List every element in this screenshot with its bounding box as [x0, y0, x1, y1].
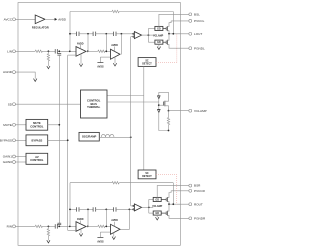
- node amp2 input: [105, 50, 107, 52]
- wire LOUT: [169, 33, 189, 35]
- pin BSR terminal: [189, 184, 192, 187]
- svg-text:PVCCL: PVCCL: [194, 19, 205, 23]
- pin RIN terminal: [13, 225, 16, 228]
- resistor R-FB right channel: [112, 182, 119, 184]
- svg-text:CONTROL: CONTROL: [30, 124, 44, 128]
- wire amp2 output: [120, 53, 121, 55]
- pin LOUT terminal: [189, 32, 192, 35]
- svg-text:CONTROL: CONTROL: [30, 158, 44, 162]
- gate drive GD1 top: [155, 26, 163, 30]
- svg-text:LOUT: LOUT: [194, 32, 202, 36]
- zener D1: [158, 95, 161, 97]
- ground LIN divider: [47, 66, 50, 69]
- wire vclamp left leg: [158, 92, 160, 96]
- wire bypass vertical B: [67, 55, 69, 230]
- gate drive GD2 bottom: [155, 40, 163, 44]
- wire AVDD stub amp2: [114, 47, 116, 52]
- wire amp1 out: [86, 50, 98, 52]
- svg-text:AVCC: AVCC: [4, 17, 13, 21]
- wire MUTE out: [48, 124, 60, 126]
- node C2 cap line: [105, 209, 107, 211]
- pin GAIN0 terminal: [13, 161, 16, 164]
- box SC DETECT left: [138, 58, 156, 67]
- svg-text:BYPASS: BYPASS: [31, 138, 42, 142]
- node RIN divider junction: [48, 226, 50, 228]
- node VCLAMP out: [168, 110, 170, 112]
- wire feedback resistor line top: [70, 11, 112, 13]
- op-amp A3 right input amp: [76, 222, 86, 232]
- node amp1R output: [87, 226, 89, 228]
- wire BSR bootstrap: [157, 186, 189, 198]
- svg-text:AVDD: AVDD: [77, 42, 84, 45]
- ground RIN divider: [47, 240, 50, 243]
- wire AVDD stub amp1: [79, 45, 81, 49]
- wire SC detect sense left (pink dotted): [156, 34, 177, 63]
- wire feedback cap line right-channel: [70, 208, 76, 210]
- wire comparator right output: [142, 206, 154, 208]
- wire AVDD stub amp1R: [79, 221, 81, 224]
- comparator PWM left: [133, 33, 134, 34]
- ramp waveform arcs: [101, 134, 114, 137]
- node LOUT fet junction: [168, 33, 170, 35]
- svg-text:GAIN0: GAIN0: [3, 160, 13, 164]
- box MUTE CONTROL: [26, 119, 48, 130]
- wire AVCC to regulator: [15, 18, 35, 20]
- pin ROUT terminal: [189, 203, 192, 206]
- node ramp split: [130, 136, 132, 138]
- op-amp A2 integrator: [111, 49, 121, 59]
- node vclamp gate: [158, 104, 160, 106]
- capacitor C-FB3: [112, 32, 114, 36]
- wire amp2 lower input: [100, 56, 110, 58]
- svg-text:PGNDR: PGNDR: [194, 216, 206, 220]
- wire ROUT: [169, 203, 189, 205]
- node mute tap right: [58, 226, 60, 228]
- box BYPASS: [26, 135, 48, 146]
- ground bar AVSS amp2R reference: [97, 236, 103, 238]
- wire amp2R lower input: [100, 231, 110, 233]
- pin BYPASS terminal: [13, 139, 16, 142]
- wire to gate drives: [147, 29, 149, 43]
- node mute tap: [58, 50, 60, 52]
- transistor Q1 high side: [163, 28, 166, 30]
- svg-text:AVDD: AVDD: [111, 219, 118, 222]
- node LOUT feedback junction: [172, 33, 174, 35]
- pin AGND terminal: [13, 71, 16, 74]
- wire riser amp1 output to cap line: [87, 34, 89, 52]
- wire regulator output: [45, 18, 55, 20]
- wire MUTE in: [15, 124, 26, 126]
- ground gate drive right channel: [156, 215, 158, 217]
- ground AGND: [34, 79, 37, 82]
- box SC DETECT right: [138, 170, 156, 179]
- pin BSL terminal: [189, 13, 192, 16]
- svg-text:AVDD: AVDD: [77, 218, 84, 221]
- wire BYPASS in: [15, 139, 26, 141]
- gate drive GD3 top right: [153, 197, 161, 201]
- pin PVCCR terminal: [171, 190, 189, 192]
- wire comparator output: [142, 34, 155, 36]
- resistor R-LIN series: [35, 50, 42, 52]
- node A2 cap line: [69, 209, 71, 211]
- resistor R-LIN to ground: [47, 51, 49, 53]
- wire ramp to comparators: [130, 37, 132, 138]
- wire riser amp2 output to node D: [120, 34, 122, 54]
- pin GAIN1 terminal: [13, 155, 16, 158]
- capacitor mute coupling: [57, 53, 61, 55]
- node B2 cap line: [87, 209, 89, 211]
- pin PGNDL terminal: [189, 47, 192, 50]
- op-amp A1 left input amp: [76, 47, 86, 57]
- node amp1 input: [69, 50, 71, 52]
- wire feedback drop to LOUT: [172, 12, 174, 34]
- node ROUT fet junction: [168, 203, 170, 205]
- node MUTE junction: [58, 124, 60, 126]
- svg-text:SD: SD: [8, 102, 13, 106]
- box CONTROL BIAS THERMAL: [81, 90, 108, 118]
- ground amp2R: [113, 232, 115, 236]
- pin SD terminal: [13, 103, 16, 106]
- svg-text:GD: GD: [157, 27, 161, 30]
- wire feedback riser left: [69, 12, 71, 52]
- capacitor C-FB1R: [75, 207, 77, 211]
- wire SC detect vertical: [143, 66, 145, 170]
- wire ramp to comparator upper input: [131, 205, 133, 207]
- box AV CONTROL: [26, 153, 48, 164]
- node amp2R input: [105, 226, 107, 228]
- resistor R-RIN series: [35, 225, 42, 227]
- pin VCLAMP terminal: [169, 110, 190, 112]
- comparator PWM right: [133, 205, 134, 206]
- wire AVDD stub amp2R: [114, 222, 116, 227]
- node BYPASS junction: [67, 139, 69, 141]
- wire riser amp2R input: [105, 209, 107, 226]
- wire RIN to amp: [57, 225, 76, 227]
- wire feedback drop to ROUT: [172, 183, 174, 205]
- wire AGND: [15, 72, 35, 79]
- capacitor C-FB2R: [92, 207, 94, 211]
- pin MUTE terminal: [13, 123, 16, 126]
- wire feedback resistor line right-channel: [70, 182, 112, 184]
- svg-text:REGULATOR: REGULATOR: [32, 26, 49, 30]
- wire control to SC net: [107, 95, 144, 97]
- node amp1 output: [87, 50, 89, 52]
- svg-text:AVSS: AVSS: [97, 66, 104, 69]
- wire LIN to amp: [57, 50, 76, 52]
- wire GAIN0 in: [15, 161, 26, 163]
- node B cap line: [87, 33, 89, 35]
- wire amp1R out: [86, 225, 98, 227]
- node gate drive split right: [148, 207, 150, 209]
- svg-text:VCLAMP: VCLAMP: [194, 109, 207, 113]
- ground amp1: [80, 54, 82, 64]
- svg-text:OSC/RAMP: OSC/RAMP: [82, 135, 97, 139]
- ground amp1R: [80, 229, 82, 233]
- wire amp1R lower input: [68, 229, 76, 231]
- svg-text:PGNDL: PGNDL: [194, 46, 205, 50]
- resistor R2 interstage: [98, 50, 105, 52]
- svg-text:THERMAL: THERMAL: [87, 105, 100, 109]
- node LIN divider junction: [48, 50, 50, 52]
- transistor Q3 high side right: [161, 198, 166, 200]
- pin LIN terminal: [13, 50, 16, 53]
- node C cap line: [105, 33, 107, 35]
- svg-text:DETECT: DETECT: [142, 63, 152, 66]
- capacitor C-FB1: [75, 32, 77, 36]
- wire control to vclamp gen: [107, 101, 159, 103]
- ground gate drive left channel: [158, 44, 160, 46]
- svg-text:GD: GD: [157, 41, 161, 44]
- wire riser amp2 input to cap line: [105, 34, 107, 52]
- zener D2: [158, 109, 161, 111]
- gate drive GD4 bottom right: [153, 211, 161, 215]
- capacitor C-FB2: [92, 32, 94, 36]
- node D cap line: [121, 33, 123, 35]
- node D2 cap line: [129, 209, 131, 211]
- capacitor C-FB3R: [112, 207, 114, 211]
- svg-text:GD: GD: [155, 198, 159, 201]
- wire SD to control: [15, 103, 80, 105]
- svg-text:AVDD: AVDD: [111, 44, 118, 47]
- wire RIN input: [15, 225, 35, 227]
- wire ramp to comparator lower input: [131, 36, 133, 38]
- ground amp2: [114, 57, 116, 63]
- wire feedback riser left right-channel: [69, 183, 71, 227]
- node amp1R input: [69, 226, 71, 228]
- svg-text:PVCCR: PVCCR: [194, 189, 206, 193]
- resistor R-FB left channel: [112, 10, 119, 12]
- node A cap line: [69, 33, 71, 35]
- op-amp A4 right integrator: [111, 224, 121, 234]
- wire feedback cap line: [70, 33, 76, 35]
- capacitor mute coupling right: [57, 222, 61, 224]
- svg-text:GAIN1: GAIN1: [3, 155, 13, 159]
- wire amp1 lower input from bypass rail: [68, 54, 76, 56]
- wire riser amp2R output to node D2: [120, 209, 129, 229]
- resistor R-vclamp: [168, 111, 170, 118]
- svg-text:AGND: AGND: [3, 70, 13, 74]
- pin PGNDR terminal: [189, 217, 192, 220]
- svg-text:GD: GD: [155, 212, 159, 215]
- arrowhead AVDD output: [55, 18, 58, 21]
- svg-text:VCLAMP: VCLAMP: [153, 35, 163, 38]
- pin PVCCL terminal: [171, 20, 189, 22]
- node gate drive split: [148, 34, 150, 36]
- capacitor C-RIN series: [54, 224, 56, 228]
- vclamp generator rail: [159, 91, 169, 93]
- svg-text:BYPASS: BYPASS: [0, 138, 12, 142]
- svg-text:BSL: BSL: [194, 12, 200, 16]
- transistor Q5 vclamp: [159, 104, 164, 106]
- transistor Q4 low side right: [161, 212, 166, 214]
- resistor R2R interstage: [98, 225, 105, 227]
- wire BSL bootstrap: [159, 14, 189, 26]
- ground bar AVSS amp2 reference: [97, 62, 103, 64]
- svg-text:VCLAMP: VCLAMP: [152, 205, 162, 208]
- wire GAIN1 in: [15, 156, 26, 158]
- svg-text:LIN: LIN: [7, 49, 12, 53]
- svg-text:AVSS: AVSS: [97, 240, 104, 243]
- IC boundary border: [18, 3, 180, 246]
- transistor Q2 low side: [163, 41, 166, 43]
- resistor R-RIN to ground: [47, 226, 49, 228]
- wire LIN input: [15, 50, 35, 52]
- svg-text:BSR: BSR: [194, 184, 201, 188]
- regulator U1 triangle: [35, 15, 45, 24]
- capacitor C-LIN series: [54, 49, 56, 53]
- box OSC RAMP: [79, 132, 99, 141]
- wire to gate drives right: [148, 199, 150, 213]
- wire riser amp1R output: [87, 209, 89, 226]
- svg-text:DETECT: DETECT: [142, 175, 152, 178]
- svg-text:RIN: RIN: [7, 225, 12, 229]
- svg-text:ROUT: ROUT: [194, 202, 203, 206]
- wire LIN node: [42, 50, 55, 52]
- svg-text:MUTE: MUTE: [3, 123, 12, 127]
- node ROUT feedback junction: [172, 203, 174, 205]
- node vclamp bottom: [168, 130, 170, 132]
- wire ramp out: [99, 136, 130, 138]
- wire mute vertical A: [58, 55, 60, 223]
- wire SC detect sense right (pink dotted): [156, 175, 177, 205]
- svg-text:AVDD: AVDD: [58, 17, 66, 21]
- wire BYPASS out: [48, 139, 68, 141]
- pin AVCC terminal: [13, 18, 16, 21]
